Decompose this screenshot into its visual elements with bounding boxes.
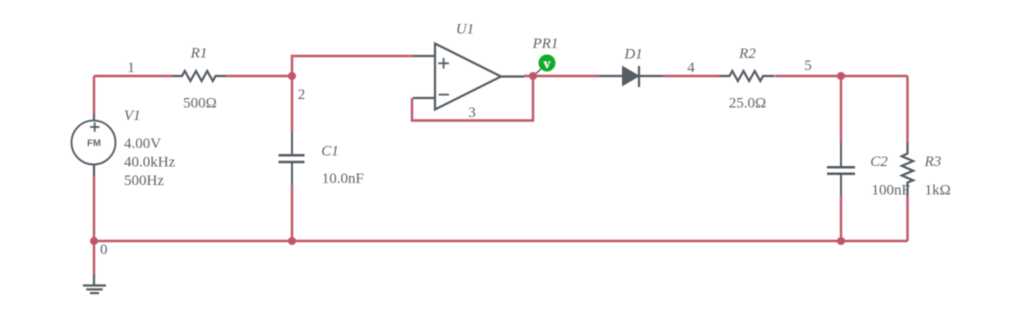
junction node 5 / C2 top (837, 72, 845, 80)
svg-text:v: v (544, 56, 551, 71)
junction C2 bottom (837, 237, 845, 245)
wire node2 up and right to op-amp + input (292, 56, 413, 76)
svg-text:100nF: 100nF (872, 183, 910, 199)
wire R2 to node 5 and corner (775, 75, 908, 77)
svg-text:V1: V1 (124, 108, 141, 124)
svg-text:25.0Ω: 25.0Ω (729, 96, 766, 112)
wire C2 branch top (840, 76, 842, 142)
resistor R2 (719, 71, 775, 81)
svg-text:D1: D1 (623, 47, 642, 63)
wire R3 bottom to rail (906, 196, 908, 241)
capacitor C2 (827, 142, 855, 196)
diode D1 (599, 66, 663, 87)
capacitor C1 (279, 131, 305, 185)
svg-text:1kΩ: 1kΩ (925, 183, 951, 199)
svg-text:5: 5 (804, 58, 812, 74)
resistor R1 (172, 71, 226, 81)
wire ground stub (93, 241, 95, 274)
wire op-amp output to junction and to diode (524, 75, 599, 77)
svg-text:40.0kHz: 40.0kHz (124, 155, 176, 171)
wire C1 bottom to rail (291, 185, 293, 241)
op-amp U1 (413, 44, 524, 110)
svg-text:U1: U1 (456, 22, 474, 38)
wire R3 branch top (906, 76, 908, 142)
wire left vertical lower (V1 bottom to rail) (93, 176, 95, 241)
wire bottom rail (94, 240, 908, 242)
svg-text:500Ω: 500Ω (183, 96, 217, 112)
wire feedback loop (412, 76, 533, 121)
svg-text:0: 0 (100, 242, 108, 258)
resistor R3 (vertical) (902, 142, 913, 196)
wire C2 bottom to rail (840, 196, 842, 241)
svg-text:R2: R2 (738, 46, 756, 62)
svg-text:10.0nF: 10.0nF (322, 171, 364, 187)
svg-text:4: 4 (687, 60, 695, 76)
junction node 2 (288, 72, 296, 80)
junction ground node (90, 237, 98, 245)
probe PR1 (536, 55, 556, 74)
svg-text:2: 2 (298, 87, 306, 103)
wire diode to R2 (663, 75, 719, 77)
svg-text:3: 3 (468, 105, 476, 121)
junction op-amp output (529, 72, 537, 80)
ground (83, 274, 106, 293)
svg-text:PR1: PR1 (532, 36, 559, 52)
wire node2 down to C1 (291, 76, 293, 131)
svg-text:1: 1 (127, 60, 135, 76)
svg-text:C1: C1 (321, 144, 339, 160)
svg-text:500Hz: 500Hz (124, 173, 164, 189)
junction C1 bottom (288, 237, 296, 245)
svg-text:C2: C2 (870, 154, 888, 170)
wire R1 to node 2 (226, 75, 292, 77)
svg-text:4.00V: 4.00V (124, 136, 161, 152)
voltage source V1 (FM) (72, 114, 116, 176)
svg-text:R1: R1 (190, 46, 208, 62)
svg-text:R3: R3 (924, 154, 942, 170)
wire top-left from V1 to R1 (94, 75, 172, 77)
svg-text:FM: FM (87, 138, 101, 149)
wire left vertical upper (V1 top) (93, 76, 95, 114)
